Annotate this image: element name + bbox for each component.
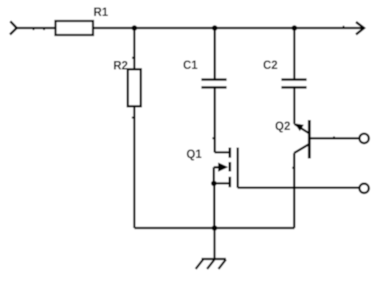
- svg-text:R2: R2: [113, 61, 128, 73]
- svg-text:C1: C1: [183, 60, 198, 72]
- svg-text:Q2: Q2: [275, 121, 290, 133]
- svg-text:C2: C2: [263, 60, 278, 72]
- svg-text:R1: R1: [94, 7, 109, 19]
- svg-text:Q1: Q1: [186, 149, 202, 161]
